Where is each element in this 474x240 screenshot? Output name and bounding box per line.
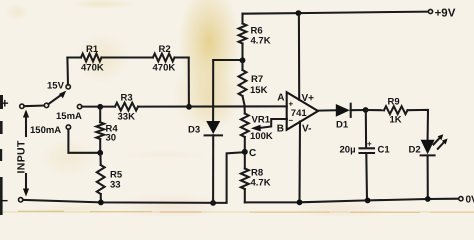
- input terminal xyxy=(1,193,23,208)
resistor R3 xyxy=(115,103,138,111)
svg-text:R9: R9 xyxy=(388,97,400,108)
INPUT annotation arrow xyxy=(23,110,29,197)
15mA switch contact xyxy=(77,104,81,108)
wire R1 to R2 xyxy=(102,56,153,58)
wire V- down to rail xyxy=(298,122,301,203)
wire R6/R7 junction left to D3 top xyxy=(213,59,242,61)
svg-text:D1: D1 xyxy=(336,120,349,131)
svg-text:B: B xyxy=(277,124,284,135)
switch arm S1 xyxy=(48,91,66,105)
svg-text:0V: 0V xyxy=(466,195,474,206)
svg-text:V+: V+ xyxy=(302,93,315,104)
resistor R7 xyxy=(239,60,247,113)
+9V terminal xyxy=(428,7,455,19)
svg-text:470K: 470K xyxy=(153,63,176,74)
bottom-right rail R8 to 0V xyxy=(245,199,459,203)
resistor R4 xyxy=(96,122,104,153)
junction D2/rail xyxy=(425,196,431,202)
D2 emission arrows xyxy=(434,134,448,149)
resistor R6 xyxy=(239,24,247,61)
svg-text:15mA: 15mA xyxy=(56,111,82,122)
main wire 15mA contact to op-amp xyxy=(82,106,115,108)
svg-text:R1: R1 xyxy=(86,44,99,55)
svg-text:D2: D2 xyxy=(409,145,421,156)
resistor R1 xyxy=(67,54,101,62)
diode D3 xyxy=(205,60,222,203)
svg-text:INPUT: INPUT xyxy=(15,140,27,173)
junction R4/R5 xyxy=(97,150,103,156)
diode D1 xyxy=(336,104,366,117)
junction D1/R9/C1 xyxy=(363,107,369,113)
svg-text:VR1: VR1 xyxy=(252,115,271,126)
svg-text:470K: 470K xyxy=(81,63,104,74)
wire R2 down to main node xyxy=(188,58,190,107)
potentiometer VR1 xyxy=(241,114,249,152)
svg-text:R3: R3 xyxy=(121,93,133,104)
wire junction to R9 xyxy=(366,109,384,111)
svg-text:741: 741 xyxy=(291,108,308,119)
junction R3/R4 xyxy=(97,104,103,110)
wire op-amp output to D1 xyxy=(318,109,336,111)
svg-text:4.7K: 4.7K xyxy=(251,178,271,189)
svg-text:15K: 15K xyxy=(250,85,268,96)
svg-text:33K: 33K xyxy=(118,112,136,123)
wire junction down to R4 xyxy=(99,107,101,123)
wire 15V contact up to R1 xyxy=(66,58,69,85)
top rail corner to R6 xyxy=(241,14,243,24)
resistor R5 xyxy=(97,153,105,203)
wire 150mA contact to R4/R5 junction xyxy=(68,129,100,153)
svg-text:30: 30 xyxy=(106,133,117,144)
svg-text:+: + xyxy=(367,140,372,149)
svg-text:33: 33 xyxy=(110,180,121,191)
svg-text:100K: 100K xyxy=(250,131,273,142)
resistor R9 xyxy=(384,106,428,139)
resistor R8 xyxy=(241,152,249,203)
top rail to +9V xyxy=(243,12,429,14)
wire D1 junction down to C1 xyxy=(365,110,367,148)
svg-text:4.7K: 4.7K xyxy=(251,36,271,47)
svg-text:R7: R7 xyxy=(251,74,263,85)
svg-text:D3: D3 xyxy=(188,125,200,136)
svg-text:15V: 15V xyxy=(47,81,65,92)
junction C1/rail xyxy=(365,198,371,204)
junction V-/rail xyxy=(297,199,303,205)
LED D2 xyxy=(421,140,435,199)
junction R5/left rail xyxy=(98,200,104,206)
wire V+ down to op-amp xyxy=(298,13,300,100)
scan border bottom speckle edge xyxy=(0,211,474,212)
svg-text:C1: C1 xyxy=(378,145,391,156)
svg-text:20µ: 20µ xyxy=(340,145,356,156)
capacitor C1 xyxy=(360,148,375,200)
scan smudge left edge xyxy=(0,95,3,109)
150mA switch contact xyxy=(66,125,70,129)
VR1 wiper arrow to op-amp inverting input xyxy=(251,119,287,131)
wire + terminal to switch pole xyxy=(24,104,44,107)
15V switch contact xyxy=(66,85,70,89)
svg-text:−: − xyxy=(1,193,9,208)
op-amp U1 741 xyxy=(287,92,318,130)
junction D3/left rail xyxy=(210,200,216,206)
svg-text:1K: 1K xyxy=(390,115,402,126)
switch pole node xyxy=(44,103,48,107)
svg-text:A: A xyxy=(277,93,284,104)
svg-text:C: C xyxy=(249,148,256,159)
svg-text:150mA: 150mA xyxy=(30,125,61,136)
junction R6/R7 xyxy=(240,57,246,63)
svg-text:R2: R2 xyxy=(159,44,171,55)
resistor R2 xyxy=(153,54,189,62)
bottom-left rail - terminal to node C riser xyxy=(23,152,245,203)
svg-text:+9V: +9V xyxy=(435,7,456,19)
wire R3 to op-amp non-inverting input xyxy=(138,105,287,107)
node C xyxy=(242,148,256,159)
svg-text:+: + xyxy=(1,96,9,111)
0V terminal xyxy=(459,195,474,206)
junction V+ on top rail xyxy=(296,10,302,16)
+ input terminal xyxy=(1,96,24,111)
svg-text:V-: V- xyxy=(302,124,311,135)
junction R2/main wire xyxy=(186,104,192,110)
